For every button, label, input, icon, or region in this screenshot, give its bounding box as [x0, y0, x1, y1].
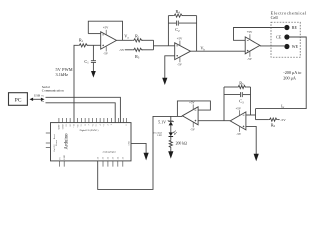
wire: U4 feedback loop — [177, 101, 210, 117]
svg-text:WE: WE — [292, 44, 299, 49]
ground (Arduino) — [144, 153, 149, 161]
svg-text:Analog Input: Analog Input — [102, 151, 116, 154]
capacitor C3 — [224, 92, 251, 104]
svg-text:AREF: AREF — [58, 124, 61, 131]
svg-text:200 μA: 200 μA — [283, 76, 296, 81]
svg-text:3.3V: 3.3V — [54, 144, 56, 149]
wire: U2 feedback right leg to output — [196, 16, 198, 52]
wire: Arduino GND to ground — [131, 143, 146, 153]
ground (zener chain) — [168, 151, 173, 158]
wire: node bar — [255, 109, 257, 120]
op-amp U2 (summing) — [175, 36, 191, 66]
svg-text:+5V: +5V — [189, 101, 195, 105]
svg-text:Digital I/O (PWM~): Digital I/O (PWM~) — [80, 129, 99, 132]
svg-text:Cell: Cell — [271, 15, 279, 20]
wire: U2 feedback left leg — [167, 16, 169, 46]
svg-text:3.1kHz: 3.1kHz — [56, 72, 69, 77]
wire: -5V to R3 — [125, 49, 133, 51]
svg-text:-5V: -5V — [247, 57, 253, 61]
svg-text:GND: GND — [128, 141, 130, 146]
resistor R3 — [133, 48, 143, 51]
resistor R2 — [133, 39, 143, 42]
LED (overload indicator) — [153, 131, 177, 138]
svg-text:-200 μA to: -200 μA to — [283, 70, 301, 75]
wire: U5 feedback right leg — [250, 87, 252, 115]
svg-text:-5V: -5V — [103, 51, 109, 55]
svg-text:PC: PC — [15, 97, 22, 103]
wire: R2 to join — [142, 39, 154, 41]
wire: U5 feedback top rail — [224, 86, 237, 88]
svg-text:Arduino: Arduino — [64, 133, 69, 150]
svg-text:-5V: -5V — [236, 132, 242, 136]
svg-text:+5V: +5V — [236, 106, 242, 110]
Arduino bottom-right analog pin stubs + labels — [103, 161, 123, 167]
wire: U5 feedback left leg — [223, 87, 225, 121]
svg-text:+5V: +5V — [103, 26, 109, 30]
resistor R5 — [237, 85, 246, 88]
svg-text:Overload: Overload — [153, 132, 162, 134]
wire: join to U2 inverting input — [154, 45, 175, 47]
USB double arrow — [30, 93, 45, 101]
wire: U5 output to U4 + input — [198, 120, 230, 122]
svg-text:5.1V: 5.1V — [158, 119, 166, 124]
wire: CE down to TIA node (Iw) — [256, 37, 307, 109]
wire: node to R6 — [256, 119, 269, 121]
wire: zener chain drop — [170, 116, 172, 121]
wire: U5 + input to ground — [246, 126, 256, 154]
electrode WE — [284, 44, 289, 49]
wire: serial RX line to Arduino — [46, 103, 116, 123]
wire: R6 to -5V — [278, 119, 280, 121]
capacitor C1 — [84, 45, 96, 71]
wire: R2/R3 join bar — [153, 40, 155, 50]
svg-text:Communication: Communication — [42, 88, 64, 92]
wire: op-amp U1 feedback loop — [88, 21, 122, 40]
svg-text:5V: 5V — [59, 157, 61, 160]
svg-text:GND: GND — [64, 155, 66, 160]
wire: U2 + input to ground — [165, 56, 175, 79]
wire: serial TX line to Arduino — [46, 97, 121, 122]
svg-text:USB: USB — [34, 93, 40, 97]
op-amp U3 (control) — [245, 30, 260, 61]
ground (C1) — [91, 71, 96, 78]
capacitor C2 — [168, 21, 196, 33]
Arduino bottom-left stubs — [60, 161, 65, 167]
wire: U5 inverting input — [246, 114, 256, 116]
op-amp U5 (transimpedance) — [230, 106, 246, 135]
wire: U4 output to Arduino A0 — [98, 116, 183, 189]
electrode CE — [284, 34, 289, 39]
svg-text:RE: RE — [292, 25, 298, 30]
svg-text:Iw: Iw — [281, 105, 284, 110]
resistor 200 kOhm — [169, 139, 172, 148]
wire: U2 output Vb to U3 — [191, 50, 246, 52]
svg-text:+5V: +5V — [247, 30, 253, 34]
resistor R1 — [78, 44, 88, 47]
zener diode 5.1V — [158, 119, 174, 125]
ground (U5 +) — [254, 154, 259, 161]
wire: U3 output to WE — [260, 45, 284, 47]
wire: U1 output / node Va — [117, 39, 133, 41]
svg-text:-5V: -5V — [190, 128, 196, 132]
wire: to U1 inverting input — [88, 33, 100, 35]
svg-text:Reset: Reset — [54, 134, 56, 139]
svg-text:CE: CE — [276, 35, 282, 40]
svg-text:-5V: -5V — [177, 62, 183, 66]
wire: R1 to op-amp input — [88, 44, 101, 46]
resistor R4 — [173, 14, 183, 17]
wire: R3 to join — [142, 49, 154, 51]
wire: U3 feedback to RE — [234, 28, 285, 41]
ground (U2 +) — [162, 78, 167, 85]
wire: U2 feedback top rail — [168, 15, 173, 17]
svg-text:-5V: -5V — [280, 118, 286, 122]
op-amp U4 (buffer to ADC) — [182, 101, 198, 132]
svg-text:LED: LED — [157, 135, 162, 137]
svg-text:200 kΩ: 200 kΩ — [176, 142, 188, 146]
PC box — [9, 93, 28, 106]
Arduino top pin stubs + labels — [59, 118, 127, 123]
svg-text:GND: GND — [62, 124, 64, 129]
electrode RE — [284, 25, 289, 30]
svg-text:Power: Power — [56, 140, 58, 146]
svg-text:+5V: +5V — [177, 36, 183, 40]
Arduino board — [51, 123, 132, 161]
resistor R6 — [269, 118, 278, 121]
op-amp U1 (buffer) — [101, 26, 117, 56]
svg-text:-5V: -5V — [119, 48, 125, 52]
wire: PWM from Arduino up to R1 — [74, 45, 78, 122]
electrochemical cell — [271, 11, 307, 58]
Arduino left pin stubs — [46, 133, 51, 148]
